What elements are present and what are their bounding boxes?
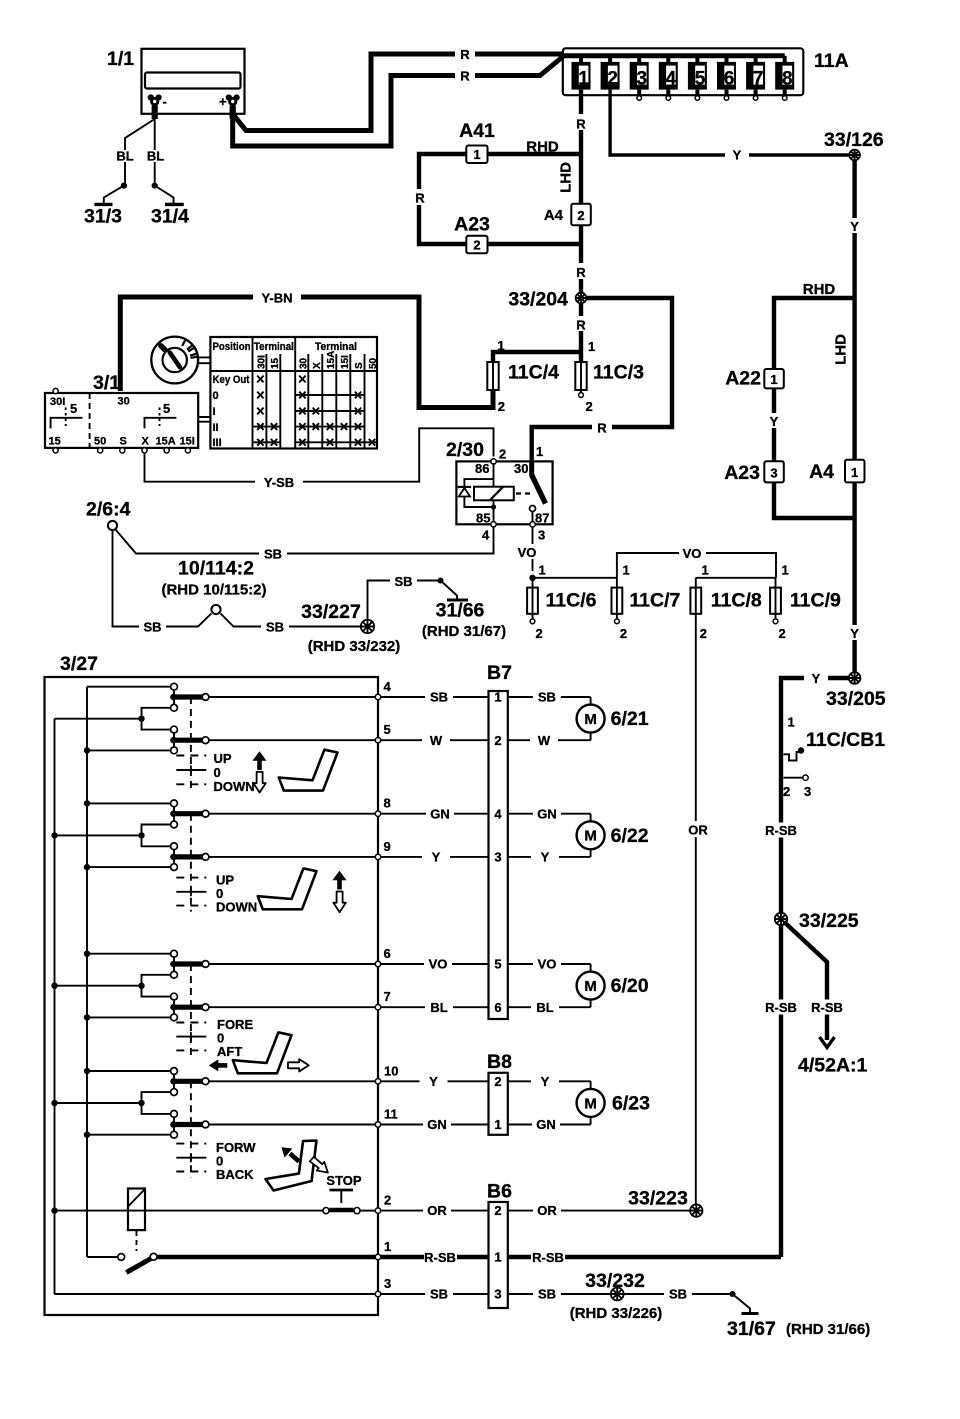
wire SB relay85 to 2/6:4 — [116, 527, 494, 562]
svg-text:4: 4 — [384, 679, 392, 694]
svg-text:M: M — [584, 978, 597, 995]
svg-text:2: 2 — [700, 626, 707, 641]
svg-text:3/27: 3/27 — [60, 653, 98, 675]
detent labels group 1 — [214, 751, 255, 794]
svg-text:1: 1 — [588, 339, 595, 354]
svg-text:OR: OR — [688, 823, 708, 838]
seat icon group 1 — [279, 750, 338, 791]
svg-text:SB: SB — [264, 547, 282, 562]
svg-text:1: 1 — [473, 147, 480, 162]
svg-text:1: 1 — [494, 1250, 501, 1265]
wire A4 down to 33/204, R — [573, 225, 589, 293]
svg-text:11C/CB1: 11C/CB1 — [806, 729, 885, 751]
wire A23 bottom to main, LHD label — [774, 334, 855, 518]
wire Y-SB from X terminal to relay 86 — [145, 428, 494, 490]
svg-text:1: 1 — [782, 563, 789, 578]
svg-text:SB: SB — [266, 620, 284, 635]
connector 10/114:2 — [161, 558, 266, 615]
svg-text:3/1: 3/1 — [93, 372, 120, 394]
svg-text:+: + — [219, 94, 227, 109]
connector B8 — [487, 1051, 512, 1135]
svg-text:2: 2 — [494, 1074, 501, 1089]
thermal protector in 3/27 — [128, 1189, 145, 1252]
relay 2/30 — [446, 439, 553, 543]
wire W row y=740.2 — [381, 733, 591, 748]
wire OR from 11C/8 down to 33/223 — [684, 614, 712, 1211]
svg-text:11C/9: 11C/9 — [790, 590, 841, 612]
wire Y row y=856.9 — [381, 849, 591, 864]
svg-text:I: I — [213, 406, 216, 418]
switch group 3 in 3/27 — [51, 946, 390, 1021]
svg-text:RHD: RHD — [803, 281, 836, 298]
svg-text:6: 6 — [724, 68, 735, 89]
svg-text:1: 1 — [578, 68, 589, 89]
detent / position indicator group 1 — [176, 697, 206, 790]
ground 31/4 — [151, 186, 189, 228]
svg-text:III: III — [213, 437, 222, 449]
svg-text:11C/7: 11C/7 — [629, 590, 680, 612]
wire SB 10/114:2 to 33/227 — [221, 614, 362, 635]
svg-text:33/225: 33/225 — [799, 910, 859, 932]
svg-text:2: 2 — [499, 447, 506, 462]
svg-text:Position: Position — [213, 341, 251, 353]
svg-text:1: 1 — [851, 465, 858, 480]
svg-text:VO: VO — [429, 957, 448, 972]
wire battery minus to grounds, BL — [116, 119, 164, 189]
svg-text:4: 4 — [666, 68, 677, 89]
wire main Y down to 33/205 — [847, 482, 863, 672]
fuse 11C/3 — [575, 362, 644, 415]
fuse 11C/4 — [487, 362, 559, 415]
arrow down outline (group 1) — [253, 772, 265, 793]
wire motor link rows 1081.3-1124.5 — [590, 1081, 592, 1124]
battery 1/1 — [107, 48, 245, 119]
svg-text:4/52A:1: 4/52A:1 — [798, 1055, 868, 1077]
wire A22 to A23, Y — [766, 388, 782, 461]
svg-text:A4: A4 — [544, 207, 564, 224]
svg-text:R: R — [460, 69, 470, 84]
svg-text:2: 2 — [620, 626, 627, 641]
connector A23 pin 2 — [454, 214, 490, 254]
control module 3/27 box — [45, 653, 379, 1315]
ignition position table — [210, 337, 379, 449]
svg-text:31/66: 31/66 — [436, 600, 485, 622]
wire motor link rows 697-740.2 — [590, 697, 592, 740]
fuse 11C/6 — [527, 578, 597, 641]
connector A22 pin 1 — [725, 368, 784, 390]
wire battery plus feed R (upper) — [233, 46, 562, 131]
svg-text:(RHD 31/66): (RHD 31/66) — [786, 1321, 870, 1338]
svg-text:2: 2 — [498, 399, 505, 414]
wire Y-BN ignition feed — [120, 290, 493, 408]
svg-text:1: 1 — [494, 690, 501, 705]
svg-text:11A: 11A — [814, 50, 849, 72]
connector 2/6:4 — [86, 499, 131, 531]
svg-text:11C/3: 11C/3 — [593, 362, 644, 384]
detent labels group 2 — [216, 873, 257, 915]
svg-text:Y: Y — [850, 219, 859, 234]
svg-text:11C/6: 11C/6 — [546, 590, 597, 612]
svg-text:R-SB: R-SB — [532, 1250, 564, 1265]
svg-text:SB: SB — [394, 574, 412, 589]
svg-text:1/1: 1/1 — [107, 48, 134, 70]
svg-text:6/21: 6/21 — [611, 708, 649, 730]
splice 33/223 — [628, 1188, 702, 1217]
svg-text:R-SB: R-SB — [765, 1000, 797, 1015]
svg-text:30I: 30I — [50, 396, 65, 408]
wire Y row y=1081.3 — [381, 1074, 591, 1089]
svg-text:Y: Y — [432, 850, 441, 865]
wire Y from 33/126 down (RHD/LHD split) — [774, 160, 863, 459]
svg-text:1: 1 — [384, 1239, 391, 1254]
seat icon group 3 — [233, 1032, 292, 1073]
svg-text:SB: SB — [538, 690, 556, 705]
ignition switch 3/1 — [45, 372, 210, 453]
svg-text:BACK: BACK — [216, 1167, 254, 1182]
connector A41 pin 1 — [459, 120, 495, 163]
connector A4 pin 2 (LHD) — [544, 162, 591, 225]
wire VO relay87 down — [514, 527, 546, 578]
detent / position indicator group 2 — [176, 814, 206, 912]
svg-text:S: S — [354, 362, 365, 369]
svg-text:3: 3 — [494, 850, 501, 865]
svg-text:VO: VO — [683, 546, 702, 561]
svg-text:Terminal: Terminal — [254, 341, 294, 353]
svg-text:A22: A22 — [725, 368, 761, 390]
svg-text:R: R — [597, 421, 607, 436]
svg-text:5: 5 — [494, 957, 501, 972]
wire GN row y=813.7 — [381, 806, 591, 821]
svg-text:1: 1 — [788, 715, 795, 730]
connector A4 pin 1 — [809, 460, 864, 483]
svg-text:M: M — [584, 828, 597, 845]
svg-text:R-SB: R-SB — [765, 823, 797, 838]
circuit breaker 11C/CB1 — [783, 715, 885, 800]
svg-text:4: 4 — [482, 528, 490, 543]
svg-text:31/3: 31/3 — [84, 206, 122, 228]
svg-text:2: 2 — [607, 68, 618, 89]
wire motor link rows 964-1007.2 — [590, 964, 592, 1007]
svg-text:5: 5 — [70, 401, 77, 416]
svg-text:VO: VO — [538, 957, 557, 972]
svg-text:5: 5 — [695, 68, 706, 89]
wire R-SB branch to 4/52A:1 arrow — [784, 922, 868, 1077]
svg-text:3: 3 — [637, 68, 648, 89]
wire motor link rows 813.7-856.9 — [590, 814, 592, 857]
fuse 6 (11A) — [717, 56, 736, 100]
svg-text:31/67: 31/67 — [727, 1318, 776, 1340]
svg-text:-: - — [163, 94, 167, 109]
svg-text:W: W — [538, 733, 551, 748]
svg-text:5: 5 — [384, 722, 391, 737]
svg-text:33/227: 33/227 — [301, 601, 361, 623]
svg-text:11: 11 — [384, 1107, 398, 1122]
svg-text:3: 3 — [804, 784, 811, 799]
svg-text:(RHD 33/232): (RHD 33/232) — [308, 638, 401, 655]
wire R-SB CB1 down to 33/225 — [764, 745, 798, 913]
svg-text:Y: Y — [541, 850, 550, 865]
svg-text:4: 4 — [494, 806, 502, 821]
svg-text:SB: SB — [669, 1287, 687, 1302]
wire 33/204 down to 11C/3, R — [573, 303, 595, 362]
svg-text:33/204: 33/204 — [508, 289, 568, 311]
svg-text:6/20: 6/20 — [611, 975, 649, 997]
fuse 5 (11A) — [688, 56, 707, 100]
wire fuse1 down R to A4 — [573, 90, 589, 204]
detent labels group 3 — [217, 1017, 253, 1059]
wire row pin2 OR with STOP switch — [51, 1193, 391, 1214]
svg-text:5: 5 — [163, 401, 170, 416]
svg-text:UP: UP — [214, 751, 232, 766]
svg-text:6/23: 6/23 — [612, 1092, 650, 1114]
svg-text:3: 3 — [538, 528, 545, 543]
wire VO row y=964 — [381, 957, 591, 972]
detent / position indicator group 3 — [176, 964, 206, 1056]
motor 6/21 — [577, 705, 649, 733]
svg-text:B7: B7 — [487, 662, 512, 684]
svg-text:GN: GN — [536, 1117, 556, 1132]
svg-text:7: 7 — [753, 68, 764, 89]
wire BL row y=1007.2 — [381, 1000, 591, 1015]
svg-text:LHD: LHD — [558, 162, 575, 193]
wire bus1 (inner left) — [54, 719, 56, 1294]
svg-text:1: 1 — [539, 563, 546, 578]
wire GN row y=1124.5 — [381, 1117, 591, 1132]
svg-text:86: 86 — [475, 461, 489, 476]
fuse 8 (11A) — [775, 56, 794, 100]
wire R-SB 33/225 down to row1 corner — [764, 925, 798, 1257]
svg-text:85: 85 — [476, 511, 490, 526]
fuse box 11A — [562, 48, 849, 95]
node VO junction / wire VO bus — [529, 546, 788, 582]
fuse 3 (11A) — [630, 56, 649, 100]
svg-text:33/223: 33/223 — [628, 1188, 688, 1210]
wire Y 33/205 left to CB riser — [781, 671, 849, 746]
svg-text:A41: A41 — [459, 120, 495, 142]
arrow right outline (group 3) — [288, 1059, 309, 1071]
svg-text:Y: Y — [812, 671, 821, 686]
svg-text:1: 1 — [702, 563, 709, 578]
seat icon group 4 (tilted) — [259, 1138, 326, 1192]
svg-text:2: 2 — [536, 626, 543, 641]
svg-text:Key Out: Key Out — [213, 374, 250, 386]
svg-text:Y-SB: Y-SB — [264, 475, 294, 490]
svg-text:B6: B6 — [487, 1181, 512, 1203]
svg-text:GN: GN — [430, 806, 450, 821]
svg-text:A4: A4 — [809, 461, 834, 483]
fuse 7 (11A) — [746, 56, 765, 100]
svg-text:33/126: 33/126 — [824, 129, 884, 151]
splice 33/225 — [775, 910, 859, 932]
svg-text:0: 0 — [214, 765, 221, 780]
svg-text:Y: Y — [429, 1074, 438, 1089]
wire row pin1 R-SB switch arm — [87, 1239, 391, 1273]
svg-text:S: S — [120, 436, 127, 448]
svg-text:OR: OR — [427, 1203, 447, 1218]
fuse 1 (11A) — [572, 56, 591, 90]
splice 33/126 — [824, 129, 884, 160]
ground 31/66 — [422, 581, 506, 641]
wire fuse2 down, Y to 33/126 — [610, 90, 849, 163]
svg-text:2: 2 — [779, 626, 786, 641]
svg-text:STOP: STOP — [326, 1173, 361, 1188]
svg-text:X: X — [312, 362, 323, 369]
wire SB 33/232 to ground 31/67 — [624, 1287, 736, 1302]
fuse 11C/7 — [612, 578, 681, 641]
switch group 4 in 3/27 — [51, 1063, 398, 1138]
svg-text:2: 2 — [494, 733, 501, 748]
switch STOP — [326, 1173, 361, 1203]
svg-text:11C/8: 11C/8 — [711, 590, 762, 612]
svg-text:(RHD 31/67): (RHD 31/67) — [422, 623, 506, 640]
svg-text:BL: BL — [430, 1000, 447, 1015]
svg-text:SB: SB — [143, 620, 161, 635]
svg-text:(RHD 10/115:2): (RHD 10/115:2) — [161, 582, 266, 599]
svg-text:Y-BN: Y-BN — [261, 291, 292, 306]
svg-text:2/30: 2/30 — [446, 439, 484, 461]
svg-text:1: 1 — [770, 372, 777, 387]
svg-text:15A: 15A — [156, 436, 176, 448]
svg-text:2: 2 — [494, 1203, 501, 1218]
splice 33/227 — [301, 601, 400, 655]
svg-text:Y: Y — [770, 414, 779, 429]
svg-text:SB: SB — [430, 1287, 448, 1302]
svg-text:31/4: 31/4 — [151, 206, 189, 228]
motor 6/20 — [577, 972, 649, 1000]
svg-text:W: W — [430, 733, 443, 748]
svg-text:3: 3 — [770, 466, 777, 481]
svg-text:VO: VO — [518, 545, 537, 560]
ignition key symbol — [151, 337, 210, 384]
switch group 2 in 3/27 — [51, 796, 390, 871]
svg-text:X: X — [142, 436, 150, 448]
svg-text:Y: Y — [850, 626, 859, 641]
svg-text:10/114:2: 10/114:2 — [178, 558, 254, 580]
svg-text:1: 1 — [497, 338, 504, 353]
svg-text:BL: BL — [147, 149, 164, 164]
arrow up (group 1) — [257, 760, 262, 770]
svg-text:2: 2 — [577, 208, 584, 223]
svg-text:(RHD 33/226): (RHD 33/226) — [570, 1305, 663, 1322]
wire SB row B6 pin3 to 33/232 and ground — [381, 1287, 610, 1302]
wire SB 33/227 up to ground 31/66 — [368, 573, 444, 620]
svg-text:10: 10 — [384, 1063, 398, 1078]
svg-text:2: 2 — [586, 399, 593, 414]
wire SB 2/6:4 down to splice chain — [113, 530, 212, 634]
detent / position indicator group 4 — [176, 1081, 206, 1177]
svg-text:Y: Y — [541, 1074, 550, 1089]
svg-text:3: 3 — [494, 1287, 501, 1302]
wire bus2 (common) — [86, 687, 88, 1257]
ground 31/67 — [727, 1294, 870, 1340]
table contact marks — [253, 376, 378, 446]
arrow down-right outline (group 4) — [310, 1157, 328, 1173]
svg-text:6: 6 — [384, 946, 391, 961]
wire 33/204 loop right to relay pin 30, R — [532, 298, 672, 461]
svg-text:A23: A23 — [454, 214, 490, 236]
svg-text:SB: SB — [430, 690, 448, 705]
wire SB row y=697 — [381, 690, 591, 705]
connector B6 — [487, 1181, 512, 1309]
svg-text:8: 8 — [384, 796, 391, 811]
motor 6/22 — [577, 821, 649, 849]
svg-text:Y: Y — [733, 148, 742, 163]
wire RHD branch A41/A23 loop — [412, 139, 581, 245]
fuse 11C/8 — [690, 578, 762, 641]
svg-text:2: 2 — [473, 237, 480, 252]
svg-text:8: 8 — [782, 68, 793, 89]
ground 31/3 — [84, 186, 124, 228]
svg-text:R: R — [415, 191, 425, 206]
wire OR row B6 pin2 to 33/223 — [381, 1203, 690, 1218]
svg-text:LHD: LHD — [833, 334, 850, 365]
svg-text:DOWN: DOWN — [216, 900, 257, 915]
svg-text:9: 9 — [384, 839, 391, 854]
fuse 2 (11A) — [601, 56, 620, 90]
arrow left filled (group 3) — [218, 1063, 228, 1068]
svg-text:1: 1 — [623, 563, 630, 578]
wire battery plus feed R (lower) — [233, 57, 563, 147]
svg-text:GN: GN — [537, 806, 557, 821]
splice 33/205 — [826, 672, 886, 710]
svg-text:BL: BL — [536, 1000, 553, 1015]
svg-text:R-SB: R-SB — [811, 1000, 843, 1015]
svg-text:M: M — [584, 1095, 597, 1112]
svg-text:15: 15 — [49, 436, 61, 448]
svg-text:30: 30 — [118, 396, 130, 408]
svg-text:AFT: AFT — [217, 1044, 242, 1059]
wire row pin3 SB — [55, 1276, 392, 1297]
svg-text:50: 50 — [94, 436, 106, 448]
svg-text:A23: A23 — [724, 462, 760, 484]
arrow down outline (group 2) — [333, 892, 345, 913]
svg-text:15I: 15I — [180, 436, 195, 448]
svg-text:II: II — [213, 422, 219, 434]
seat icon group 2 — [258, 868, 317, 909]
arrow up-left filled (group 4) — [290, 1154, 299, 1162]
wire R-SB row through B6 to riser — [381, 1250, 781, 1265]
svg-text:11C/4: 11C/4 — [508, 362, 559, 384]
svg-text:R-SB: R-SB — [424, 1250, 456, 1265]
fuse 4 (11A) — [659, 56, 678, 100]
svg-text:R: R — [460, 47, 470, 62]
svg-text:DOWN: DOWN — [214, 779, 255, 794]
svg-text:1: 1 — [536, 444, 543, 459]
splice 33/204 — [508, 289, 586, 311]
svg-text:0: 0 — [213, 390, 219, 402]
svg-text:87: 87 — [535, 511, 549, 526]
switch group 1 in 3/27 — [55, 679, 392, 754]
svg-text:R: R — [576, 318, 586, 333]
svg-text:7: 7 — [384, 989, 391, 1004]
svg-text:R: R — [576, 265, 586, 280]
svg-text:GN: GN — [427, 1117, 447, 1132]
detent labels group 4 — [216, 1140, 256, 1182]
fuse 11C/9 — [770, 578, 841, 641]
svg-text:BL: BL — [116, 149, 133, 164]
svg-text:2: 2 — [384, 1193, 391, 1208]
svg-text:2: 2 — [783, 784, 790, 799]
svg-text:R: R — [576, 117, 586, 132]
svg-text:30: 30 — [514, 461, 528, 476]
arrow up (group 2) — [337, 880, 342, 890]
svg-text:50: 50 — [368, 357, 379, 369]
svg-text:2/6:4: 2/6:4 — [86, 499, 131, 521]
connector A23 pin 3 — [724, 461, 784, 484]
svg-text:SB: SB — [538, 1287, 556, 1302]
svg-text:6/22: 6/22 — [611, 825, 649, 847]
svg-text:B8: B8 — [487, 1051, 512, 1073]
